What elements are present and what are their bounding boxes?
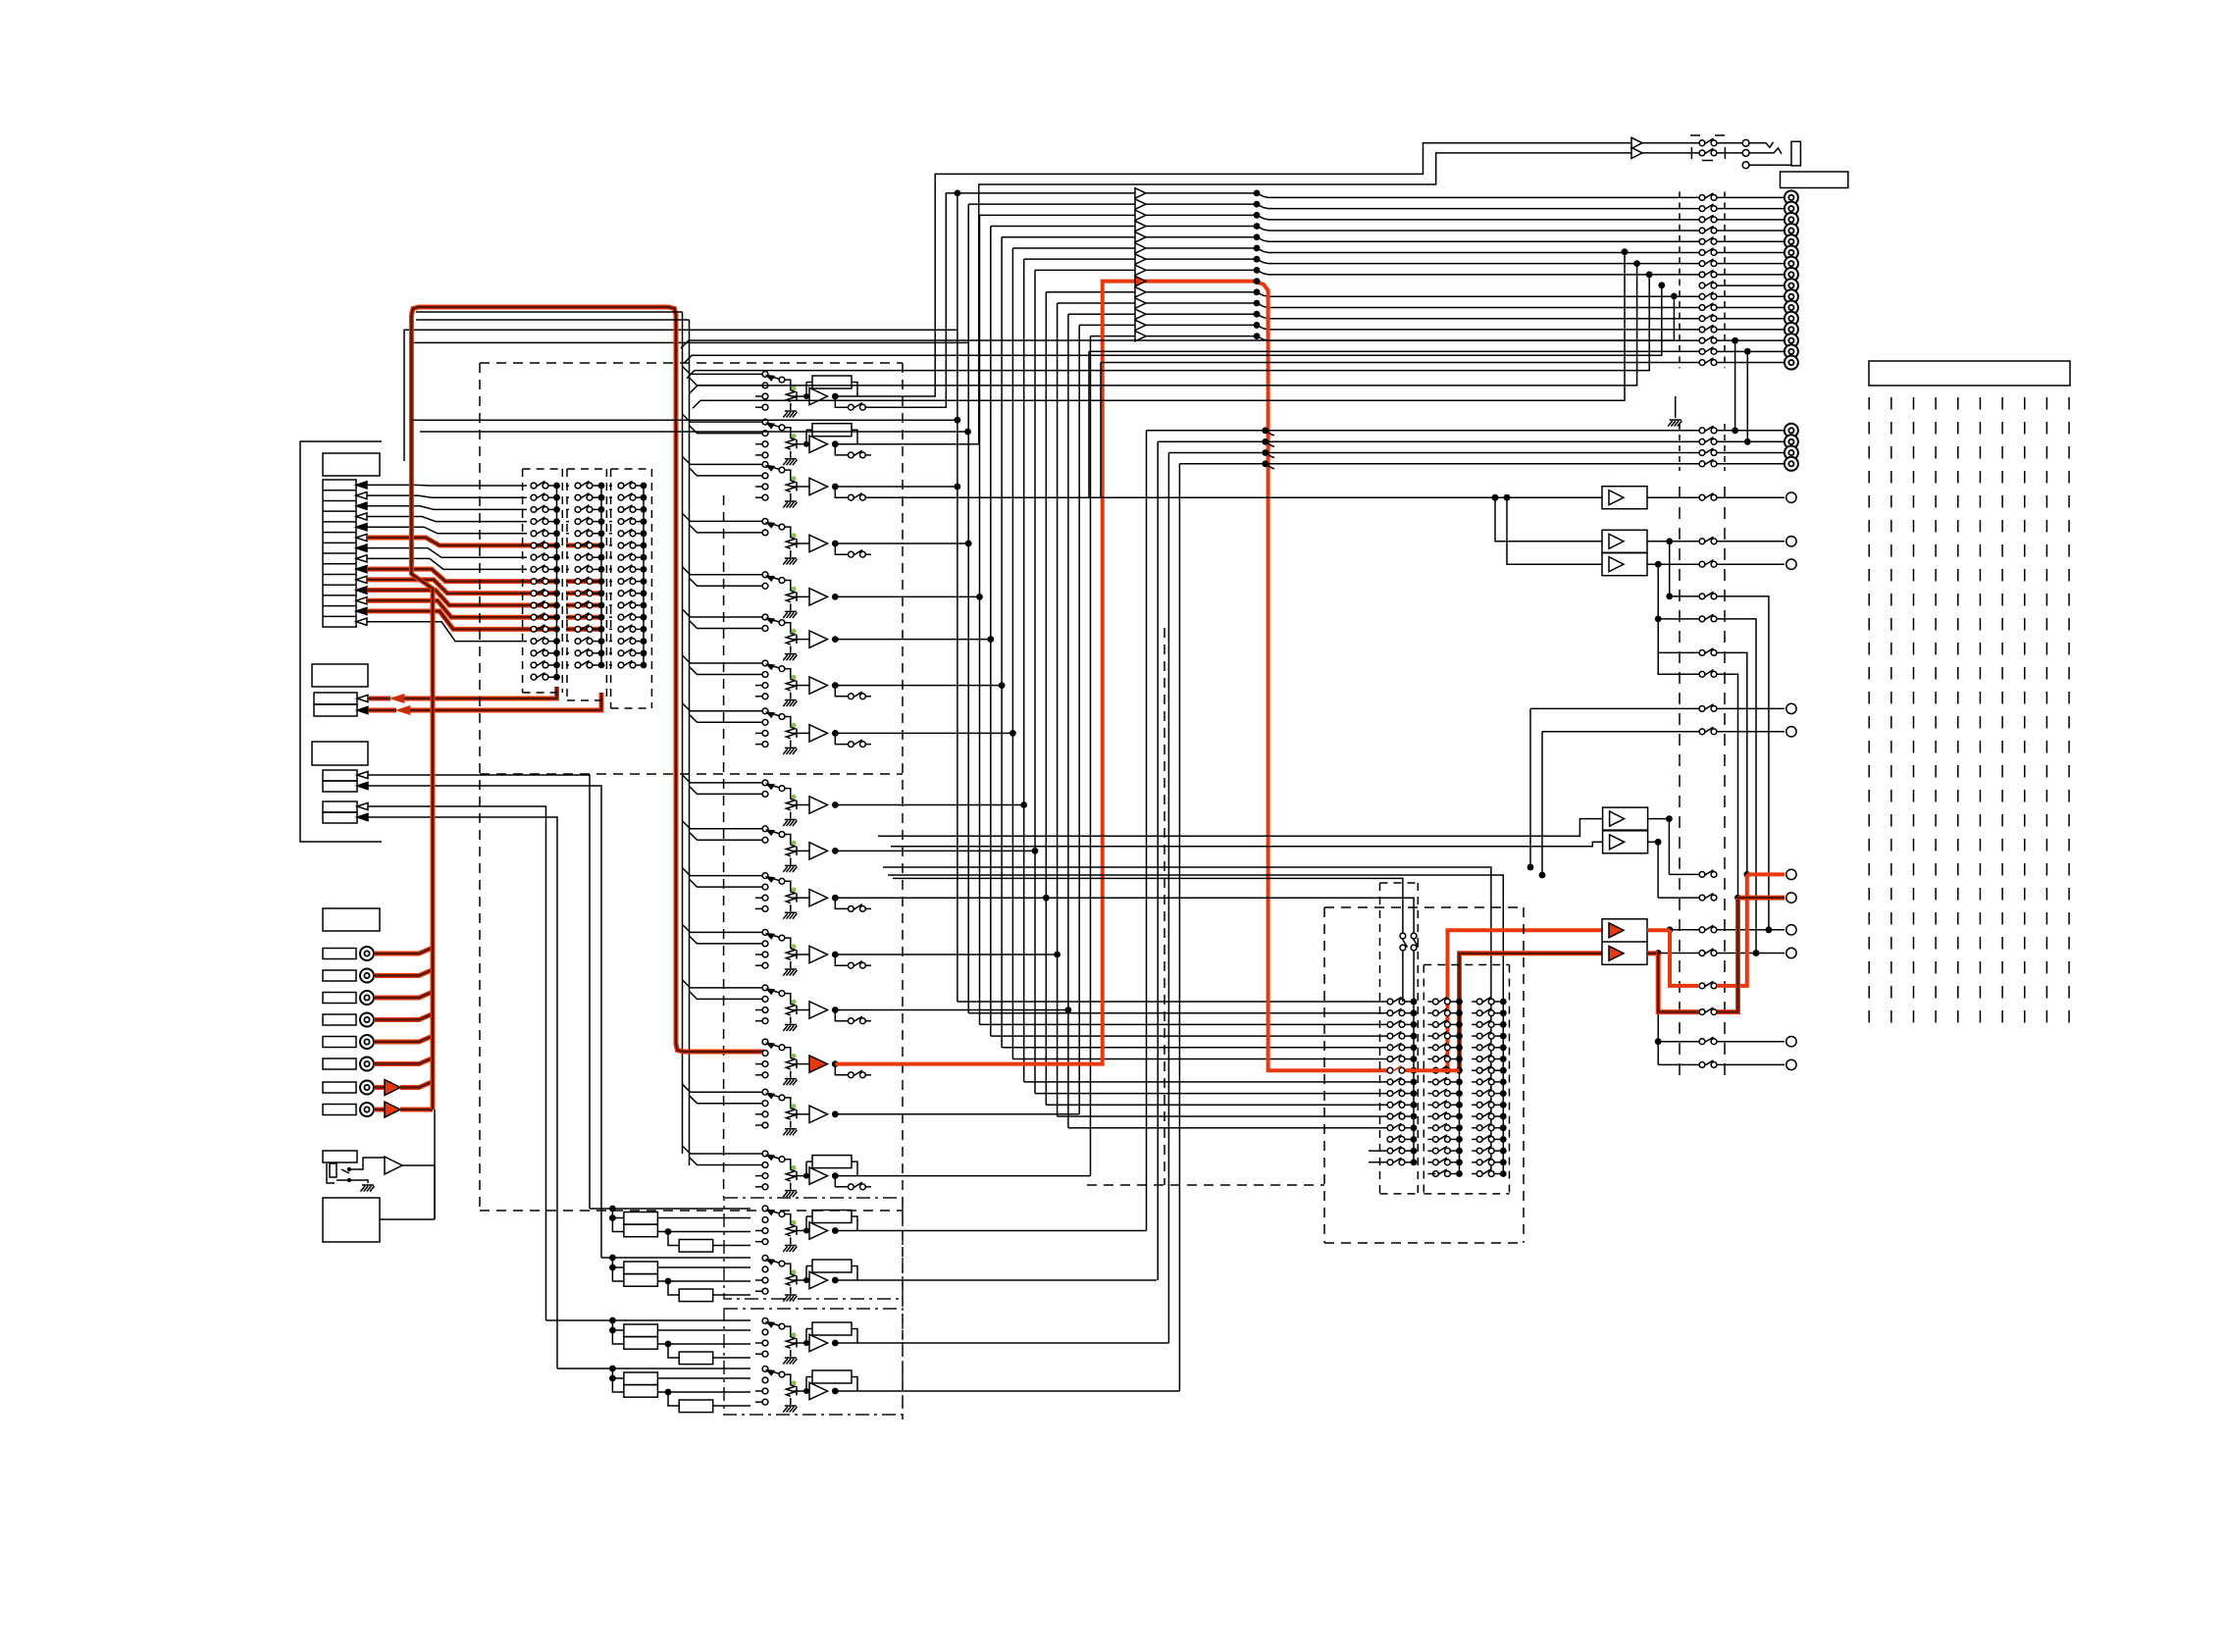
channel CH6 LED — [791, 629, 796, 634]
channel CH2 input selector — [762, 419, 768, 425]
bus line to output switch row 4 — [1275, 230, 1699, 232]
input jack J5 — [360, 1035, 374, 1049]
RCA output jack JO3 — [1785, 213, 1798, 227]
right matrix switch N2-8 — [1433, 1077, 1451, 1085]
channel CH20 aux input contacts — [755, 1390, 762, 1392]
right matrix switch N1-12 — [1387, 1123, 1405, 1131]
wire D1 down to AUX group2 — [368, 806, 546, 1320]
channel CH12 LED — [791, 944, 796, 949]
junction M2-4 — [598, 518, 605, 525]
channel CH7 ground — [783, 700, 797, 707]
wire channel output to riser V11 — [835, 897, 1046, 899]
wire feed CH7a — [683, 655, 763, 663]
wire feed CH2b — [690, 426, 763, 434]
pin arrow P8 — [356, 555, 367, 562]
junction M3-4 — [641, 518, 647, 525]
red bus vertical — [411, 315, 433, 1110]
red wire J6 to bus — [374, 1057, 433, 1064]
red jog down to right matrix feed — [1254, 282, 1387, 1071]
channel CH2 ground — [783, 459, 797, 466]
RCA output jack JO1 — [1785, 190, 1798, 204]
monitor feed line 4 — [891, 842, 1603, 846]
matrix switch M3-4 — [618, 517, 636, 524]
wire channel output to riser V14 — [835, 1113, 1079, 1115]
wire feed CH5b — [690, 578, 763, 586]
bus line to output switch row 3 — [1275, 219, 1699, 221]
ribbon wire 6 — [1979, 397, 1981, 1035]
right matrix feed row 5 — [1002, 1047, 1387, 1049]
channel CH5 buffer U5 — [809, 589, 828, 605]
wire feed CH4a — [683, 513, 763, 521]
channel column dashed rail — [723, 495, 725, 1198]
wire switch to RCA 13 — [1717, 329, 1785, 331]
channel CH19 aux input contacts — [755, 1342, 762, 1344]
channel CH17 ground — [783, 1246, 797, 1253]
stair wire SW1 — [681, 296, 1674, 348]
right matrix switch N3-16 — [1476, 1169, 1494, 1177]
red bus top corner to right — [411, 307, 764, 1052]
bus junction channel tap V11 — [1043, 895, 1050, 902]
spare channel CH17 series resistor — [679, 1240, 713, 1253]
monitor feed line 2 — [1507, 497, 1602, 564]
channel CH19 feedback resistor RF19 — [812, 1322, 852, 1335]
wire feed CH16b — [690, 1158, 763, 1165]
wire long feed JP2 — [1158, 440, 1699, 442]
wire pin P5 to matrix — [367, 527, 527, 534]
junction M2-10 — [598, 590, 605, 596]
bus line to output switch row 7 — [1275, 263, 1699, 265]
junction M2-12 — [598, 614, 605, 621]
bus top line H9 — [1024, 258, 1257, 260]
matrix switch M1-15 — [531, 648, 548, 655]
right matrix switch N2-10 — [1433, 1101, 1451, 1109]
phone jack tip contact — [1742, 139, 1749, 146]
channel CH15 ground — [783, 1129, 797, 1136]
red monitor riser dark — [1460, 954, 1603, 1070]
channel CH7 aux input contacts — [755, 685, 762, 687]
channel CH20 pole wire — [785, 1374, 791, 1384]
matrix column 2 bus — [600, 486, 602, 665]
output switch SO16 — [1699, 358, 1717, 365]
channel CH9 input selector — [762, 780, 768, 786]
bus junction channel tap V3 — [955, 484, 961, 490]
wire pin P14 to matrix — [367, 622, 527, 642]
right matrix switch N3-13 — [1476, 1135, 1494, 1143]
tape out switch — [1699, 493, 1717, 501]
channel CH14 buffer U14 — [809, 1056, 828, 1072]
matrix switch M3-8 — [618, 565, 636, 573]
pin arrow P11 — [356, 587, 367, 594]
input jack J7 — [360, 1081, 374, 1095]
red line buffer — [1135, 276, 1146, 285]
matrix switch M2-16 — [575, 660, 593, 667]
wire switch to RCA 3 — [1717, 219, 1785, 221]
input jack J6 — [360, 1058, 374, 1071]
hp selector feed 1 — [893, 878, 1403, 933]
channel CH15 wire to buffer — [797, 1113, 809, 1115]
wire pin P3 to matrix — [367, 506, 527, 510]
wire long feed JP3 — [1168, 452, 1699, 454]
bus top line H4 — [968, 203, 1257, 205]
red wire J3 to bus — [374, 990, 433, 998]
wire pin P6 to matrix (highlighted) — [367, 538, 527, 545]
channel CH18 input selector — [762, 1256, 768, 1262]
left big box (power) — [323, 1198, 380, 1242]
channel CH1 wire to buffer — [797, 395, 809, 397]
monitor buffer box pair A — [1602, 530, 1647, 552]
wire feed CH9a — [683, 775, 763, 783]
bus top line H12 — [1058, 302, 1257, 304]
junction M2-16 — [598, 662, 605, 669]
red wire J4 to bus — [374, 1012, 433, 1020]
channel CH2 feedback resistor RF2 — [812, 424, 852, 437]
red buffer T8 — [374, 1108, 385, 1112]
wire pin P11 to matrix (highlighted) — [367, 591, 527, 605]
channel CH19 output junction — [832, 1340, 839, 1347]
wire spare channel 1 riser — [1146, 431, 1148, 1231]
phone jack ring contact — [1742, 150, 1749, 157]
spare channel CH19 pad resistors — [624, 1324, 658, 1337]
RCA output jack JO9 — [1785, 279, 1798, 292]
bus line to output switch row 14 — [1275, 339, 1699, 341]
jog junction JJ3 — [1254, 190, 1261, 197]
matrix column 1 bus — [556, 486, 558, 677]
line buffer A14 — [1135, 320, 1146, 330]
channel CH19 LED — [791, 1332, 796, 1337]
right matrix switch N3-9 — [1476, 1089, 1494, 1097]
junction M3-2 — [641, 494, 647, 501]
right matrix switch N3-10 — [1476, 1101, 1494, 1109]
matrix switch M2-7 — [575, 553, 593, 561]
wire switch to RCA 12 — [1717, 318, 1785, 320]
input connector box L8 — [323, 1105, 356, 1115]
monitor switch SM5 — [1699, 981, 1717, 989]
jog junction JJ14 — [1254, 322, 1261, 329]
junction M1-14 — [553, 638, 560, 645]
junction M1-5 — [553, 530, 560, 537]
channel CH6 input resistor R6 — [790, 633, 792, 634]
wire switch to RCA 2 — [1717, 208, 1785, 210]
red return wire to B1 — [368, 697, 390, 701]
matrix switch M3-2 — [618, 493, 636, 501]
wire feed CH8b — [690, 714, 763, 722]
bus line to output switch row 11 — [1275, 307, 1699, 309]
channel CH19 pole wire — [785, 1326, 791, 1336]
dashed link to left — [1087, 1184, 1324, 1186]
tape out feed line — [871, 496, 1602, 498]
right matrix switch N1-13 — [1387, 1135, 1405, 1143]
channel CH16 ground — [783, 1191, 797, 1198]
junction M1-1 — [553, 483, 560, 490]
ribbon wire 5 — [1957, 397, 1959, 1035]
output switch SO10 — [1699, 292, 1717, 300]
channel CH3 ground — [783, 501, 797, 508]
channel CH10 LED — [791, 841, 796, 846]
matrix switch M2-5 — [575, 529, 593, 536]
mic jack symbol — [327, 1163, 335, 1183]
wire feed CH7b — [690, 667, 763, 675]
matrix switch M3-10 — [618, 589, 636, 595]
right matrix switch N1-1 — [1387, 997, 1405, 1004]
matrix switch M3-16 — [618, 660, 636, 667]
monitor switch SM8 — [1699, 1060, 1717, 1068]
right matrix feed row 6 — [1012, 1058, 1387, 1060]
left matrix dashed divider — [480, 773, 903, 775]
monitor jack JM3 — [1786, 925, 1796, 935]
bus top line H15 — [1091, 336, 1258, 337]
headphone label box — [1781, 172, 1848, 188]
bus riser V13 — [1067, 314, 1069, 1127]
channel CH14 LED — [791, 1054, 796, 1058]
right matrix switch N2-5 — [1433, 1043, 1451, 1051]
input connector box L6 — [323, 1058, 356, 1069]
line buffer A3 — [1135, 188, 1146, 198]
bus riser V12 — [1057, 303, 1059, 1116]
left connector block header box — [323, 453, 380, 476]
input jack J2 — [360, 969, 374, 983]
headphone feed line B — [835, 153, 1631, 444]
matrix switch M1-4 — [531, 517, 548, 524]
RCA output jack JO15 — [1785, 344, 1798, 358]
line buffer A11 — [1135, 287, 1146, 297]
channel CH16 wire to buffer — [797, 1175, 809, 1177]
spare channel CH17 input network — [590, 1208, 612, 1210]
channel CH16 input selector — [762, 1151, 768, 1157]
red buffer T7 — [374, 1085, 385, 1090]
matrix switch M2-13 — [575, 625, 593, 633]
channel CH12 post switch — [835, 955, 848, 965]
line buffer A8 — [1135, 243, 1146, 253]
red wire J1 to bus — [374, 946, 433, 954]
left pair connector boxes C1 C2 — [323, 770, 357, 781]
bus line to output switch row 13 — [1275, 329, 1699, 331]
monitor jack JM6 — [1786, 1059, 1796, 1069]
bus riser V3 — [957, 193, 958, 1002]
wire feed CH10b — [690, 832, 763, 840]
channel CH9 pole wire — [785, 789, 791, 799]
bus line to output switch row 8 — [1275, 274, 1699, 276]
junction M3-14 — [641, 638, 647, 645]
right matrix feed row 8 — [1035, 1093, 1387, 1095]
spare channel CH18 pad resistors — [624, 1262, 658, 1274]
right matrix switch N3-4 — [1476, 1032, 1494, 1040]
channel CH14 output junction — [832, 1060, 839, 1067]
channel CH17 LED — [791, 1220, 796, 1225]
channel CH20 output junction — [832, 1388, 839, 1395]
channel CH2 output junction — [832, 440, 839, 447]
monitor buffer box pair B — [1603, 807, 1648, 830]
wire feed CH13a — [683, 980, 763, 988]
output switch SO13 — [1699, 325, 1717, 333]
channel CH13 post switch — [835, 1010, 848, 1021]
junction M3-7 — [641, 554, 647, 561]
wire switch to RCA 15 — [1717, 350, 1785, 352]
pin arrow B2 — [357, 706, 368, 713]
left matrix dashed col box 3 — [610, 469, 612, 708]
matrix switch M2-14 — [575, 637, 593, 644]
input connector box L4 — [323, 1014, 356, 1025]
bus top line H3 — [957, 192, 1257, 194]
jog junction JJ6 — [1254, 223, 1261, 230]
bus junction channel tap V9 — [1020, 801, 1027, 808]
matrix switch M3-7 — [618, 553, 636, 561]
junction M1-2 — [553, 494, 560, 501]
channel CH14 wire to buffer — [797, 1063, 809, 1065]
line buffer A15 — [1135, 331, 1146, 340]
channel CH5 wire to buffer — [797, 595, 809, 597]
junction M2-5 — [598, 530, 605, 537]
wire feed CH2a — [683, 414, 763, 422]
spare channel CH18 input network — [601, 1257, 612, 1259]
matrix switch M1-6 — [531, 541, 548, 547]
input connector box L5 — [323, 1037, 356, 1048]
channel CH4 input selector — [762, 519, 768, 525]
spare outputs — [835, 1230, 1146, 1232]
pin arrow P6 — [356, 534, 367, 541]
RCA output jack JP1 — [1785, 424, 1798, 438]
bus top line H13 — [1068, 313, 1257, 315]
pin arrow P1 — [356, 482, 367, 489]
channel CH4 input resistor R4 — [790, 537, 792, 538]
matrix switch M3-14 — [618, 637, 636, 644]
wire feed CH12a — [683, 924, 763, 932]
channel CH7 wire to buffer — [797, 685, 809, 687]
right matrix switch N2-15 — [1433, 1158, 1451, 1165]
bus top line H5 — [980, 214, 1258, 216]
right matrix switch N1-6 — [1387, 1055, 1405, 1062]
output switch SO7 — [1699, 259, 1717, 267]
left matrix dashed col box 2 — [566, 469, 568, 700]
pin arrow C2 — [357, 782, 368, 789]
channel CH16 pole wire — [785, 1160, 791, 1169]
channel CH12 output junction — [832, 952, 839, 958]
junction M1-13 — [553, 626, 560, 633]
aux send line 1 — [1530, 707, 1699, 709]
channel CH11 input selector — [762, 873, 768, 879]
distribution bus vertical 2 — [689, 320, 691, 1165]
channel CH11 ground — [783, 912, 797, 919]
channel CH9 buffer U9 — [809, 797, 828, 813]
monitor jack JM5 — [1786, 1037, 1796, 1047]
matrix switch M3-9 — [618, 577, 636, 584]
bus junction channel tap V6 — [987, 636, 994, 643]
input jack J4 — [360, 1013, 374, 1027]
right matrix switch N3-8 — [1476, 1077, 1494, 1085]
wire pin P12 to matrix (highlighted) — [367, 600, 527, 617]
wire C1 down to AUX group1 — [368, 775, 590, 1209]
wire pin P7 to matrix — [367, 548, 527, 558]
right matrix feed row 1 — [957, 1001, 1387, 1003]
matrix column 3 bus — [643, 486, 645, 665]
matrix switch M3-12 — [618, 613, 636, 621]
channel CH11 input resistor R11 — [790, 891, 792, 892]
wire long feed JP4 — [1179, 463, 1699, 465]
bus riser V10 — [1034, 270, 1036, 1093]
bus top line H14 — [1079, 324, 1257, 326]
monitor switch SM4 — [1699, 949, 1717, 955]
channel CH14 post switch — [835, 1064, 848, 1075]
channel CH18 LED — [791, 1269, 796, 1274]
channel CH12 aux input contacts — [755, 954, 762, 955]
matrix switch M1-3 — [531, 505, 548, 513]
junction M1-11 — [553, 602, 560, 609]
right matrix switch N1-4 — [1387, 1032, 1405, 1040]
channel CH3 aux input contacts — [755, 486, 762, 488]
channel CH11 pole wire — [785, 881, 791, 891]
output switch SO1 — [1699, 193, 1717, 201]
right matrix switch N2-14 — [1433, 1147, 1451, 1155]
output switch SO9 — [1699, 281, 1717, 287]
line buffer A13 — [1135, 309, 1146, 319]
matrix top feed 1 — [883, 867, 1491, 1174]
channel CH6 output junction — [832, 636, 839, 643]
RCA output jack JP4 — [1785, 457, 1798, 471]
wire pin P2 to matrix — [367, 495, 527, 497]
channel CH13 ground — [783, 1025, 797, 1032]
matrix switch M1-8 — [531, 565, 548, 573]
matrix switch M3-5 — [618, 529, 636, 536]
wire pin P10 to matrix (highlighted) — [367, 580, 527, 594]
headphone switch 2 — [1699, 148, 1717, 156]
channel CH2 wire to buffer — [797, 443, 809, 445]
channel CH20 LED — [791, 1380, 796, 1385]
channel CH13 aux input contacts — [755, 1009, 762, 1011]
channel CH7 output junction — [832, 682, 839, 689]
monitor row 608 — [1670, 542, 1699, 596]
left pair connector boxes D1 D2 — [323, 801, 357, 812]
right matrix switch N2-9 — [1433, 1089, 1451, 1097]
junction M1-12 — [553, 614, 560, 621]
right matrix feed row 9 — [1046, 1104, 1387, 1106]
bus junction channel tap V10 — [1032, 848, 1039, 854]
channel CH10 input resistor R10 — [790, 844, 792, 845]
red monitor out 2 — [1647, 951, 1658, 955]
channel CH11 LED — [791, 887, 796, 892]
monitor out B wiring — [1648, 819, 1670, 875]
bus riser V7 — [1001, 237, 1003, 1048]
spare channel CH20 series resistor — [679, 1400, 713, 1413]
junction M1-3 — [553, 506, 560, 513]
channel CH7 post switch — [835, 686, 848, 697]
headphone selector switch pair — [1400, 933, 1408, 951]
matrix switch M1-1 — [531, 481, 548, 489]
red return wire to B2 — [368, 708, 396, 713]
junction M2-9 — [598, 578, 605, 585]
channel CH11 post switch — [835, 898, 848, 908]
matrix switch M1-17 — [531, 673, 548, 681]
wire spare channel 2 riser — [1157, 441, 1159, 1280]
junction M1-6 — [553, 542, 560, 549]
pin arrow P10 — [356, 576, 367, 583]
channel CH8 buffer U8 — [809, 725, 828, 742]
left panel enclosure bracket — [300, 441, 382, 842]
jog junction JJ9 — [1254, 256, 1261, 263]
channel CH1 output junction — [832, 393, 839, 400]
channel CH4 LED — [791, 533, 796, 538]
junction stair column A — [1732, 337, 1738, 344]
right matrix switch N1-9 — [1387, 1089, 1405, 1097]
matrix switch M2-1 — [575, 481, 593, 489]
RCA output jack JO7 — [1785, 257, 1798, 271]
matrix switch M1-5 — [531, 529, 548, 536]
phone jack sleeve contact — [1742, 162, 1749, 169]
monitor row 948 wiring — [1670, 929, 1699, 931]
channel CH1 pole wire — [785, 380, 791, 389]
channel CH3 output junction — [832, 484, 839, 490]
right matrix switch N1-3 — [1387, 1020, 1405, 1028]
right matrix switch N2-4 — [1433, 1032, 1451, 1040]
ground right matrix — [1675, 396, 1677, 418]
